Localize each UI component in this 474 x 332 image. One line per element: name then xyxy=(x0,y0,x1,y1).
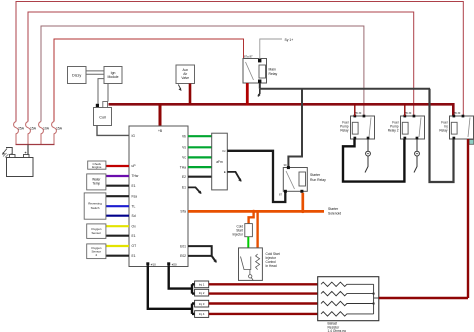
svg-text:Vc: Vc xyxy=(182,156,186,160)
svg-text:Dizzy: Dizzy xyxy=(72,74,81,78)
svg-text:Engine: Engine xyxy=(92,165,102,169)
svg-text:Inj 3: Inj 3 xyxy=(199,302,205,306)
svg-text:Coil: Coil xyxy=(99,115,106,119)
svg-text:THa: THa xyxy=(180,165,186,169)
svg-text:In Head: In Head xyxy=(266,264,277,268)
svg-text:85 30: 85 30 xyxy=(355,112,362,115)
svg-text:Relay 2: Relay 2 xyxy=(388,129,399,133)
svg-text:OT: OT xyxy=(132,244,137,248)
svg-text:E1: E1 xyxy=(182,186,186,190)
svg-text:15A: 15A xyxy=(56,127,63,131)
svg-text:E1: E1 xyxy=(132,184,136,188)
svg-text:#20: #20 xyxy=(172,263,177,267)
svg-text:E1: E1 xyxy=(132,234,136,238)
svg-text:STa: STa xyxy=(180,210,186,214)
svg-text:Module: Module xyxy=(107,75,118,79)
svg-text:IG: IG xyxy=(132,134,136,138)
svg-text:Relay: Relay xyxy=(439,129,448,133)
svg-text:Inj 2: Inj 2 xyxy=(199,291,205,295)
svg-text:E: E xyxy=(224,170,226,174)
svg-text:85 30: 85 30 xyxy=(454,112,461,115)
svg-text:Sensor: Sensor xyxy=(92,231,102,235)
svg-text:E1: E1 xyxy=(132,254,136,258)
svg-text:Fsa: Fsa xyxy=(132,194,138,198)
svg-text:Ox: Ox xyxy=(132,224,137,228)
svg-text:15A: 15A xyxy=(30,127,37,131)
svg-text:Solenoid: Solenoid xyxy=(328,212,341,216)
svg-text:Inj 4: Inj 4 xyxy=(199,312,205,316)
svg-text:Temp: Temp xyxy=(92,182,100,186)
svg-text:Sd: Sd xyxy=(132,214,136,218)
svg-text:Injector: Injector xyxy=(233,233,244,237)
svg-text:#10: #10 xyxy=(151,263,156,267)
svg-text:Vb: Vb xyxy=(182,134,186,138)
svg-text:Sy 1+: Sy 1+ xyxy=(285,38,294,42)
svg-text:E01: E01 xyxy=(180,244,186,248)
svg-text:THw: THw xyxy=(132,174,139,178)
svg-text:85 30: 85 30 xyxy=(405,112,412,115)
svg-text:Switch: Switch xyxy=(91,206,100,210)
svg-text:Relay: Relay xyxy=(269,72,278,76)
svg-text:Starter: Starter xyxy=(310,173,321,177)
svg-text:Run Relay: Run Relay xyxy=(310,178,326,182)
svg-text:25A: 25A xyxy=(18,127,25,131)
svg-text:Relay: Relay xyxy=(340,129,349,133)
svg-text:Inj 1: Inj 1 xyxy=(199,283,205,287)
svg-text:aFm: aFm xyxy=(216,160,223,164)
svg-text:10A: 10A xyxy=(43,127,50,131)
svg-text:87a 87: 87a 87 xyxy=(244,55,253,59)
svg-text:87: 87 xyxy=(279,193,282,197)
svg-text:E02: E02 xyxy=(180,254,186,258)
svg-text:Vs: Vs xyxy=(182,146,186,150)
svg-text:30: 30 xyxy=(284,163,287,167)
svg-text:+: + xyxy=(25,151,27,155)
svg-text:Starter: Starter xyxy=(328,207,339,211)
svg-text:TL: TL xyxy=(132,204,136,208)
svg-text:E2: E2 xyxy=(182,175,186,179)
svg-text:Valve: Valve xyxy=(181,76,189,80)
svg-text:Fc: Fc xyxy=(222,149,226,153)
